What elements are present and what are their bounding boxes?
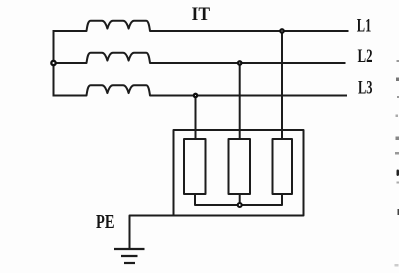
wire drop from L3 to resistor R1 <box>195 96 197 140</box>
node junction on L2 <box>238 61 241 64</box>
resistor R3 <box>273 139 293 194</box>
resistor R2 <box>229 139 251 194</box>
inductor coil phase L2 <box>54 53 346 63</box>
ground symbol PE earth <box>114 249 145 263</box>
inductor coil phase L3 <box>54 85 348 95</box>
wire PE conductor <box>130 216 174 249</box>
svg-text:IT: IT <box>192 4 211 25</box>
edge artifacts: cut-off page text at right margin <box>395 60 399 267</box>
node terminal on left bus <box>51 61 55 65</box>
svg-text:L1: L1 <box>357 16 372 37</box>
enclosure box <box>174 130 304 216</box>
inductor coil phase L1 <box>54 21 349 31</box>
node junction on L3 <box>194 94 197 97</box>
svg-text:L3: L3 <box>358 78 373 99</box>
svg-text:L2: L2 <box>358 46 373 67</box>
node star point <box>238 203 242 207</box>
wire left vertical bus <box>53 30 55 97</box>
wire star bus connecting resistor bottoms <box>195 194 282 205</box>
svg-text:PE: PE <box>96 212 115 233</box>
wire stub resistor R2 to star point <box>239 194 241 203</box>
wire drop from L2 to resistor R2 <box>239 63 241 139</box>
node junction on L1 <box>280 29 283 32</box>
wire drop from L1 to resistor R3 <box>281 31 283 139</box>
resistor R1 <box>184 139 206 194</box>
